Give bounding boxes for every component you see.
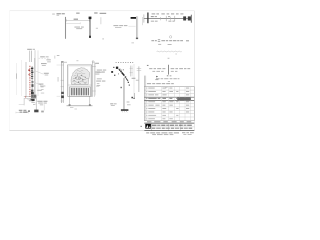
channel cross ticks <box>137 68 142 70</box>
title block top border <box>144 122 194 124</box>
louver grille frame <box>70 87 91 96</box>
faint speck mid sheet <box>131 41 134 44</box>
note text under screws <box>96 81 105 87</box>
print note text below border line 1 <box>146 131 179 134</box>
flat bar 2 bottom mark <box>89 36 91 38</box>
position balloon <box>169 36 171 38</box>
upper text row above table <box>156 78 179 82</box>
small label above unit <box>63 61 67 64</box>
faint foot mark right <box>41 111 44 113</box>
note rows above table area <box>149 67 190 70</box>
header strip row <box>147 120 191 123</box>
table column lines <box>162 87 191 121</box>
table row 4 highlighted text <box>146 98 178 99</box>
table row 7 text <box>146 108 189 109</box>
flat bar 1 vertical <box>65 17 67 39</box>
table row 5 text <box>146 101 189 102</box>
tiny dot lower right <box>102 38 103 39</box>
note text right of leg <box>37 101 47 104</box>
label text 2x FL <box>52 13 65 15</box>
section flag symbol above table <box>156 76 158 80</box>
heat exchanger coil scribble <box>71 68 90 85</box>
flange tick marks <box>92 66 96 91</box>
section pole marker <box>168 65 170 75</box>
table row 3 text <box>146 94 189 95</box>
print note text below border line 2 <box>152 133 173 136</box>
logo white letter <box>146 125 148 128</box>
red bottom tick <box>25 96 26 98</box>
sheet background <box>0 0 200 141</box>
table row 1 text <box>146 88 189 89</box>
channel flange black mark <box>131 17 136 19</box>
unit base line <box>67 105 93 107</box>
table row 6 text <box>146 105 189 106</box>
post height text <box>110 103 116 106</box>
nut mark under screws <box>120 87 122 88</box>
annotation text top right of cabinet <box>40 56 51 62</box>
title text line 1 <box>152 125 192 126</box>
left height dimension text (rotated) <box>16 73 17 78</box>
red component dots <box>28 69 29 71</box>
base hatch marks <box>122 111 128 112</box>
faint marks under base <box>70 106 73 109</box>
highlighted row stamp cell <box>177 98 191 101</box>
rail label text above line <box>151 16 170 17</box>
divider line <box>68 84 92 86</box>
support column line <box>35 99 37 112</box>
note text line above table <box>147 83 174 87</box>
dimension line short <box>66 22 80 24</box>
base feet <box>69 104 71 106</box>
terminal row gray cluster <box>31 95 36 99</box>
note text line 1 <box>151 39 189 42</box>
rail clamp dark dots <box>61 92 64 94</box>
short vertical mark <box>134 93 136 98</box>
leader line lower <box>35 82 42 85</box>
channel note text <box>113 25 127 28</box>
small eyelet top right <box>92 61 94 63</box>
left rotated dimension text <box>57 77 60 82</box>
table row lines <box>144 90 194 117</box>
label text 2x L 45x45x6 <box>94 12 106 14</box>
flat bar 2 vertical <box>89 17 91 38</box>
red center dashed line <box>29 66 31 97</box>
left height dimension line <box>16 63 18 95</box>
small note text left <box>95 63 105 75</box>
rail label text below line <box>151 20 175 23</box>
title text line 2 <box>152 127 192 130</box>
right flange lines <box>92 61 94 96</box>
cabinet right wall <box>34 58 36 98</box>
lower component block <box>31 90 34 92</box>
post base plate <box>121 109 128 111</box>
lower-left note text <box>19 110 30 113</box>
unit outline <box>68 65 92 96</box>
label text 60 <box>76 13 79 14</box>
rail hole tick marks <box>160 16 174 21</box>
mounting rail double line <box>60 61 62 103</box>
fold mark left of title block <box>140 126 142 127</box>
scattered screw heads <box>116 67 118 69</box>
title block mid line <box>151 126 194 128</box>
dimension text 510 <box>74 19 78 20</box>
table row 10 text <box>146 118 172 119</box>
inner dark wall <box>31 66 33 93</box>
leader dashes to the right <box>39 57 50 59</box>
dimension labels above rail <box>152 13 184 14</box>
small mark upper right <box>147 65 149 66</box>
small tick near unit top-left <box>54 56 56 59</box>
rail left end plate <box>147 13 149 24</box>
support leg line <box>23 99 25 106</box>
title block vertical dividers <box>150 123 152 131</box>
small mark <box>96 27 98 30</box>
annotation text right 4 <box>39 84 46 87</box>
column foot dark <box>34 110 38 113</box>
cabinet bottom rails <box>24 96 37 98</box>
flat bar 2 top cap <box>89 17 92 20</box>
dotted reference row <box>116 62 134 63</box>
screw dots cluster <box>131 97 133 99</box>
weld seam wavy line <box>157 51 182 52</box>
cabinet top extension lines <box>29 51 31 62</box>
sheet number text below border right <box>182 132 194 135</box>
screw washer circle <box>119 69 121 71</box>
unit inner frame <box>69 66 91 95</box>
highlighted row borders <box>144 96 194 98</box>
table border upper extension <box>143 76 145 87</box>
company logo black square <box>145 124 151 129</box>
channel short leg <box>141 17 143 25</box>
drawing frame border <box>10 11 195 131</box>
channel leader line <box>128 25 135 27</box>
rail horizontal line <box>144 18 192 20</box>
upper dark component <box>31 92 34 94</box>
annotation text right 2 <box>41 63 47 66</box>
table row 2 text <box>146 91 189 92</box>
table outline <box>144 87 194 121</box>
louver grille bars <box>71 88 89 95</box>
mid components <box>31 81 33 83</box>
table inner left column line <box>145 87 147 121</box>
dimension tick <box>19 104 24 106</box>
right annotation text <box>97 70 106 86</box>
small marks right of screws <box>132 78 139 81</box>
note text under dimensions <box>74 27 83 29</box>
satellite specks <box>118 73 119 74</box>
bottom dark bracket <box>31 99 35 101</box>
title block bottom border <box>144 130 194 132</box>
rail clamp block 1 <box>183 16 186 20</box>
scattered smudges below cabinet <box>29 100 43 106</box>
table row 9 text <box>146 115 178 116</box>
channel web double line <box>136 16 138 39</box>
rail right end plate <box>190 15 192 23</box>
channel bottom tick <box>136 38 138 40</box>
terminal block cluster <box>31 68 33 70</box>
annotation text right 3 <box>44 73 49 76</box>
dimension line 510 <box>66 19 89 21</box>
leader diagonal <box>27 99 36 103</box>
unit base legs <box>69 96 71 105</box>
faint marks between cabinet and unit <box>41 86 45 93</box>
angle profile faint vertical <box>100 17 102 24</box>
bracket vertical light <box>129 66 131 77</box>
post vertical <box>123 78 125 110</box>
note small sub text <box>158 44 171 45</box>
left dimension ticks <box>57 65 61 96</box>
screw 2 light segment <box>126 78 128 81</box>
cabinet top label <box>27 49 32 50</box>
screw fragments along diagonal <box>113 67 114 68</box>
marks right of post <box>127 102 131 106</box>
screw 1 bold segment <box>122 72 125 75</box>
outer faint wall <box>37 50 39 96</box>
faint vertical guide <box>133 64 135 98</box>
rail clamp block 2 <box>188 16 191 20</box>
annotation text right 5 <box>37 89 42 92</box>
table row 8 text <box>146 112 189 113</box>
cabinet left wall <box>25 62 27 97</box>
leader line to components <box>35 71 44 75</box>
faint left extension line <box>21 60 23 96</box>
faint stub under red line <box>29 99 31 102</box>
tiny specks above pole <box>168 57 170 60</box>
channel vertical <box>138 66 140 92</box>
faint support line right <box>43 104 45 110</box>
rail tick marks <box>61 65 64 101</box>
lower dimension line <box>16 112 28 114</box>
